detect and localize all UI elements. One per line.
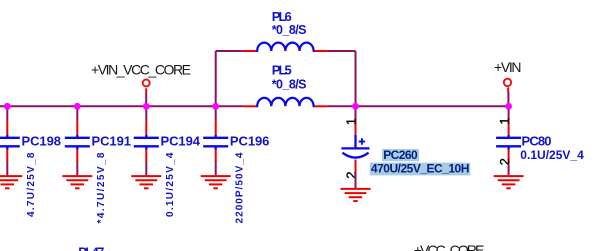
- svg-text:470U/25V_EC_10H: 470U/25V_EC_10H: [371, 162, 470, 176]
- svg-text:PC198: PC198: [22, 134, 62, 149]
- svg-text:*0_8/S: *0_8/S: [272, 78, 307, 92]
- svg-text:4.7U/25V_8: 4.7U/25V_8: [26, 152, 37, 217]
- wire: +VIN_VCC_CORE stem maroon part: [145, 94, 147, 107]
- junction node at PC260: [352, 103, 359, 110]
- power terminal +VIN_VCC_CORE circle: [143, 80, 150, 87]
- capacitor PC80 pin 1 red: [508, 121, 510, 135]
- capacitor PC198 column wire upper maroon: [6, 106, 8, 120]
- svg-text:PC260: PC260: [383, 148, 418, 162]
- capacitor PC260 pin 1 red: [355, 119, 357, 135]
- svg-text:PC194: PC194: [161, 134, 201, 149]
- svg-text:0.1U/25V_4: 0.1U/25V_4: [165, 152, 176, 217]
- svg-text:1: 1: [344, 118, 359, 125]
- ground below PC191: [62, 176, 92, 188]
- capacitor PC196 column wire upper maroon: [215, 106, 217, 120]
- junction node at +VIN / PC80: [505, 103, 512, 110]
- inductor PL5 pin 2 (red lead): [314, 105, 328, 107]
- capacitor PC191 pin 1 red: [76, 121, 78, 135]
- svg-text:PL5: PL5: [272, 63, 292, 78]
- inductor PL5 pin 1 (red lead): [243, 105, 257, 107]
- inductor PL5 coils: [257, 98, 313, 106]
- capacitor PC196 body: [203, 135, 228, 150]
- ground below PC260: [341, 189, 371, 201]
- wire: +VIN_VCC_CORE stem red part: [145, 88, 147, 93]
- wire: bus segment between PL5 and PC260 node: [327, 105, 355, 107]
- svg-text:PC80: PC80: [522, 134, 552, 149]
- capacitor PC196 pin 2 red: [215, 150, 217, 162]
- inductor PL6 coils: [257, 43, 313, 51]
- wire: bus segment from PC260 node to +VIN node: [356, 105, 510, 107]
- ground below PC194: [131, 176, 161, 188]
- ground below PC198: [0, 176, 22, 188]
- inductor PL6 pin 2 (red lead): [314, 50, 328, 52]
- ground below PC196: [201, 176, 231, 188]
- svg-text:PL6: PL6: [272, 9, 292, 24]
- svg-text:*0_8/S: *0_8/S: [272, 23, 307, 37]
- capacitor PC191 column wire upper maroon: [76, 106, 78, 120]
- wire: PC196 to ground maroon: [215, 162, 217, 175]
- wire: left riser to inductor top branch: [215, 51, 217, 106]
- svg-text:PL47: PL47: [78, 245, 104, 251]
- wire: main horizontal bus left segment: [0, 105, 243, 107]
- capacitor PC260 pin 2 red: [355, 160, 357, 173]
- wire: PC80 to ground maroon: [508, 164, 510, 176]
- plus polarity mark of PC260: [359, 138, 365, 144]
- svg-text:2: 2: [497, 158, 512, 165]
- wire: PC191 to ground maroon: [76, 162, 78, 175]
- svg-text:PC196: PC196: [230, 134, 270, 149]
- svg-text:+VCC_CORE: +VCC_CORE: [414, 242, 485, 251]
- ground below PC80: [494, 176, 524, 188]
- inductor PL6 pin 1 (red lead): [243, 50, 257, 52]
- svg-text:+VIN_VCC_CORE: +VIN_VCC_CORE: [91, 62, 191, 78]
- junction node at PC196 / riser: [212, 103, 219, 110]
- capacitor PC80 body: [496, 135, 521, 150]
- value of PC260 (highlighted): [370, 163, 470, 176]
- capacitor PC260 wire upper maroon: [355, 106, 357, 118]
- capacitor PC191 pin 2 red: [76, 150, 78, 162]
- capacitor PC198 body: [0, 135, 20, 150]
- capacitor PC194 pin 1 red: [145, 121, 147, 135]
- capacitor PC196 pin 1 red: [215, 121, 217, 135]
- wire: PC194 to ground maroon: [145, 162, 147, 175]
- wire: top branch horizontal left part: [216, 50, 243, 52]
- wire: PC260 to ground maroon: [355, 172, 357, 188]
- wire: +VIN stem maroon part: [507, 92, 509, 106]
- capacitor PC194 column wire upper maroon: [145, 106, 147, 120]
- junction node at PC194 / +VIN_VCC_CORE: [143, 103, 150, 110]
- wire: PC198 to ground maroon: [6, 162, 8, 175]
- svg-text:*4.7U/25V_8: *4.7U/25V_8: [96, 152, 107, 223]
- power terminal +VIN circle: [504, 79, 511, 86]
- svg-text:0.1U/25V_4: 0.1U/25V_4: [520, 148, 584, 162]
- wire: right riser from top branch to bus: [355, 51, 357, 106]
- svg-text:1: 1: [497, 118, 512, 125]
- wire: top branch horizontal right part: [327, 50, 355, 52]
- capacitor PC80 wire upper maroon: [508, 106, 510, 120]
- capacitor PC191 body: [65, 135, 90, 150]
- capacitor PC80 pin 2 red: [508, 150, 510, 164]
- capacitor PC194 body: [134, 135, 159, 150]
- svg-text:+VIN: +VIN: [494, 59, 522, 75]
- capacitor PC260 body (polarized): [341, 135, 369, 158]
- junction node at PC198: [4, 103, 11, 110]
- capacitor PC194 pin 2 red: [145, 150, 147, 162]
- capacitor PC198 pin 2 red: [6, 150, 8, 162]
- label PC260 (highlighted): [382, 149, 419, 161]
- capacitor PC198 pin 1 red: [6, 121, 8, 135]
- svg-text:2200P/50V_4: 2200P/50V_4: [234, 152, 245, 223]
- svg-text:PC191: PC191: [92, 134, 132, 149]
- junction node at PC191: [74, 103, 81, 110]
- wire: +VIN stem red part: [507, 87, 509, 92]
